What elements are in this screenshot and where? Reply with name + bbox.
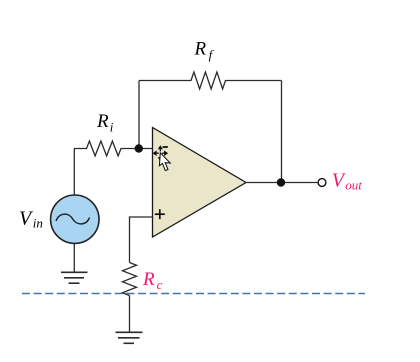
svg-text:Ri: Ri <box>96 111 114 134</box>
wire: output <box>246 182 318 184</box>
svg-text:Vout: Vout <box>332 170 362 193</box>
resistor Ri <box>74 141 153 156</box>
wire: Vin bottom vertical <box>73 243 75 272</box>
op-amp U1 <box>153 128 247 238</box>
svg-text:Rc: Rc <box>142 269 163 292</box>
ground reference dashed line <box>22 293 365 295</box>
ground below Vin <box>61 272 88 283</box>
svg-text:Rf: Rf <box>194 39 215 62</box>
wire: feedback left vertical <box>138 81 140 149</box>
node: inverting input junction dot <box>135 144 143 152</box>
op-amp minus pin label <box>163 146 168 148</box>
resistor Rc <box>123 263 137 296</box>
ground below Rc <box>116 332 143 343</box>
wire: feedback right vertical <box>281 81 283 183</box>
svg-text:Vin: Vin <box>19 208 43 231</box>
resistor Rf <box>139 72 282 89</box>
wire: non-inverting input <box>130 217 153 263</box>
output terminal open circle <box>318 179 326 187</box>
wire: Vin top vertical <box>73 149 75 197</box>
voltage source Vin <box>51 195 99 243</box>
node: output junction dot <box>277 178 285 186</box>
cursor: move-mode mouse pointer <box>153 145 171 170</box>
wire: Rc to ground <box>129 296 131 333</box>
op-amp plus pin label <box>155 209 165 219</box>
